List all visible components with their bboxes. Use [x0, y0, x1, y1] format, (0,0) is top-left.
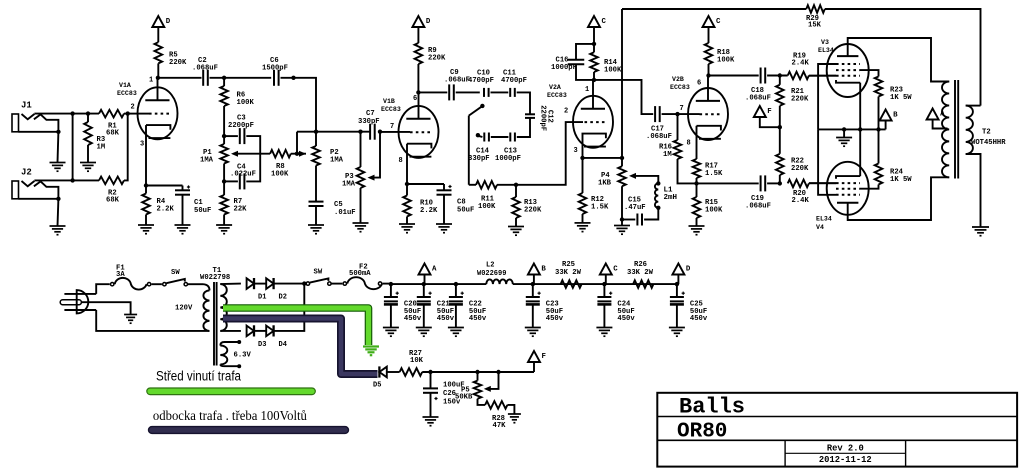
switch contact upper: [479, 136, 483, 137]
svg-text:D: D: [686, 266, 691, 274]
capacitor C21: [423, 284, 425, 297]
svg-text:100K: 100K: [705, 207, 723, 215]
diode D2: [266, 278, 273, 289]
wire J2 to R2: [34, 179, 99, 181]
wire P5 to R28: [478, 399, 486, 405]
power node F 2: [528, 351, 540, 362]
fuse F1: [111, 283, 114, 286]
svg-text:.068uF: .068uF: [745, 95, 771, 103]
svg-text:SW: SW: [314, 269, 323, 277]
wire F1 to SW: [152, 283, 162, 285]
svg-text:B: B: [541, 266, 546, 274]
wire R23 bottom: [878, 97, 880, 130]
svg-text:220K: 220K: [428, 55, 446, 63]
svg-text:1500pF: 1500pF: [262, 65, 288, 73]
resistor R12: [579, 193, 587, 214]
legend green bar: [147, 388, 315, 395]
wire C to R18: [708, 27, 710, 43]
capacitor C23: [532, 284, 534, 297]
wire secondary bottom to ground: [966, 154, 981, 227]
diode D5: [379, 367, 386, 378]
svg-text:4700pF: 4700pF: [468, 77, 494, 85]
potentiometer P1: [223, 136, 225, 144]
svg-text:68K: 68K: [106, 197, 120, 205]
wire R27 to F: [422, 371, 534, 373]
junction V2B plate: [706, 73, 710, 77]
svg-text:SW: SW: [171, 269, 180, 277]
svg-text:.068uF: .068uF: [444, 77, 470, 85]
junction R21 top: [778, 73, 782, 77]
svg-text:450v: 450v: [617, 315, 635, 323]
resistor R8: [270, 150, 291, 158]
svg-text:100K: 100K: [604, 67, 622, 75]
svg-text:3: 3: [574, 147, 578, 155]
svg-text:D: D: [426, 18, 431, 26]
ground R13: [508, 226, 524, 228]
svg-text:1: 1: [585, 86, 589, 94]
wire V3 cathode: [859, 83, 861, 130]
power node B: [880, 110, 892, 121]
capacitor C9: [448, 84, 450, 100]
P1 wiper arrow: [237, 153, 270, 155]
wire P4 bottom: [621, 186, 623, 219]
diode D3: [247, 326, 254, 337]
svg-text:F: F: [542, 353, 546, 361]
svg-text:V2A: V2A: [549, 84, 561, 91]
svg-text:220K: 220K: [169, 59, 187, 67]
resistor R19: [788, 72, 809, 80]
svg-text:D: D: [166, 18, 171, 26]
ground mains: [124, 314, 137, 316]
resistor R26: [633, 280, 653, 288]
wire to C16: [576, 44, 594, 60]
junction C23: [531, 282, 535, 286]
svg-text:Střed vinutí trafa: Střed vinutí trafa: [156, 369, 241, 384]
wire V4 g3: [818, 129, 836, 194]
resistor R29: [806, 5, 825, 13]
wire plug neutral: [96, 310, 209, 331]
junction R6 top: [222, 76, 226, 80]
svg-text:.47uF: .47uF: [624, 204, 646, 212]
resistor R16: [674, 140, 682, 159]
wire V2B cathode: [696, 126, 698, 159]
node V1A plate: [156, 76, 160, 80]
svg-text:W022798: W022798: [200, 274, 230, 282]
wire R24 top: [878, 129, 880, 163]
tube V1B ECC83: [381, 92, 439, 165]
wire V4 g1: [809, 182, 836, 184]
svg-text:1000pF: 1000pF: [551, 64, 577, 72]
svg-text:500mA: 500mA: [349, 270, 371, 278]
svg-text:ECC83: ECC83: [117, 90, 137, 97]
svg-text:Balls: Balls: [679, 395, 745, 420]
fuse F2: [343, 282, 346, 285]
svg-text:F: F: [767, 108, 771, 116]
capacitor C8: [443, 184, 445, 190]
svg-text:33K 2W: 33K 2W: [627, 269, 654, 277]
wire plate to C2: [158, 77, 202, 79]
capacitor C25: [676, 284, 678, 297]
mains plug: [60, 290, 96, 313]
resistor R1: [99, 110, 124, 118]
transformer T1 heater winding: [220, 346, 227, 365]
power node A: [419, 264, 431, 275]
wire V1A cathode: [145, 125, 147, 185]
wire R20 to V4 grid: [809, 182, 836, 184]
svg-text:V2B: V2B: [672, 76, 684, 83]
svg-text:D2: D2: [279, 294, 287, 302]
resistor R6: [223, 78, 225, 86]
resistor R20: [788, 180, 809, 188]
wire P2 to C5: [315, 166, 317, 202]
capacitor C2: [202, 70, 204, 86]
wire C11 to C12: [517, 92, 530, 114]
svg-text:C12: C12: [546, 110, 554, 123]
wire C16 bottom: [576, 64, 594, 80]
power node A tap: [927, 109, 939, 120]
wire R28 ground: [507, 405, 514, 414]
resistor R25: [561, 280, 582, 288]
junction cathode R10: [405, 182, 409, 186]
svg-text:A: A: [940, 111, 945, 119]
ground R28: [508, 413, 521, 415]
transformer T1 primary: [203, 284, 210, 290]
ground P3: [353, 222, 369, 224]
svg-text:1: 1: [149, 77, 153, 85]
junction C4 node: [222, 179, 226, 183]
ground J2: [50, 225, 66, 227]
ground C20: [383, 327, 399, 329]
capacitor C20: [390, 284, 392, 297]
svg-text:W022699: W022699: [477, 270, 506, 278]
junction C16 tee: [592, 42, 596, 46]
potentiometer P5: [474, 381, 482, 399]
junction C22: [454, 282, 458, 286]
svg-text:6: 6: [697, 80, 701, 88]
svg-text:100K: 100K: [237, 99, 255, 107]
capacitor C3: [224, 135, 238, 137]
capacitor C1: [182, 186, 184, 191]
svg-text:2200pF: 2200pF: [539, 105, 547, 131]
potentiometer P2: [312, 146, 320, 166]
tube V3 EL34: [818, 39, 869, 97]
svg-text:100K: 100K: [271, 171, 289, 179]
wire SW to T1: [188, 283, 204, 285]
capacitor C17: [654, 106, 656, 122]
power node F: [754, 106, 766, 117]
svg-text:C26: C26: [443, 390, 456, 398]
svg-text:D4: D4: [279, 341, 287, 349]
svg-text:C1: C1: [194, 199, 203, 207]
junction P3 top: [358, 130, 362, 134]
title block: [657, 393, 1017, 467]
ground C5: [308, 224, 324, 226]
wire HV top to D1: [220, 283, 241, 286]
resistor R23: [875, 77, 883, 97]
wire R15 ground: [696, 218, 698, 226]
ground C26: [423, 416, 439, 418]
ground R12: [575, 222, 591, 224]
tube V1A ECC83: [117, 77, 178, 149]
power node C: [588, 16, 600, 27]
wire R17 bottom: [696, 178, 698, 183]
junction P4 top: [620, 156, 624, 160]
switch pole wire: [468, 116, 470, 185]
junction PI lower: [694, 181, 698, 185]
wire V2A cathode: [582, 134, 584, 158]
svg-text:1MA: 1MA: [330, 157, 344, 165]
wire J1 to R1: [34, 113, 99, 115]
resistor R10: [406, 184, 408, 196]
wire R12 ground: [582, 214, 584, 223]
svg-text:ECC83: ECC83: [381, 106, 401, 113]
wire V3 g1: [809, 75, 836, 77]
svg-text:C: C: [716, 18, 721, 26]
potentiometer P4: [618, 166, 626, 186]
resistor R27: [400, 368, 423, 376]
capacitor C15: [622, 219, 635, 221]
resistor R28: [485, 401, 507, 409]
wire cathode to C8: [407, 183, 444, 185]
svg-text:450v: 450v: [546, 315, 564, 323]
capacitor C13: [509, 133, 511, 142]
svg-text:1M: 1M: [663, 151, 672, 159]
ground C8: [436, 223, 452, 225]
svg-text:22K: 22K: [234, 206, 248, 214]
tube V4 EL34: [816, 162, 869, 231]
svg-text:D5: D5: [373, 382, 381, 390]
capacitor C18: [760, 68, 762, 84]
ground R7: [216, 224, 232, 226]
legend navy bar: [149, 427, 349, 434]
svg-text:2012-11-12: 2012-11-12: [819, 455, 872, 465]
capacitor C7: [369, 124, 371, 140]
svg-text:330pF: 330pF: [468, 155, 490, 163]
svg-text:D3: D3: [258, 341, 266, 349]
wire P3 ground: [360, 188, 362, 223]
capacitor C16: [568, 59, 585, 61]
junction C21: [422, 282, 426, 286]
inductor L1 2mH: [655, 183, 658, 207]
wire R19 to V3 grid: [809, 75, 836, 77]
power node D 3: [672, 264, 684, 275]
svg-text:1MA: 1MA: [342, 181, 356, 189]
ground C21: [416, 327, 432, 329]
svg-text:7: 7: [390, 123, 394, 131]
svg-text:100K: 100K: [478, 203, 496, 211]
svg-text:15K: 15K: [808, 22, 822, 30]
wire heater bottom: [220, 365, 238, 367]
wire C10 C11: [491, 91, 509, 93]
svg-text:33K 2W: 33K 2W: [555, 269, 582, 277]
svg-text:2.4K: 2.4K: [792, 197, 810, 205]
svg-text:450v: 450v: [437, 315, 455, 323]
svg-text:50KB: 50KB: [455, 394, 473, 402]
wire signal bus: [297, 131, 370, 133]
svg-text:1MA: 1MA: [200, 157, 214, 165]
svg-text:.068uF: .068uF: [192, 65, 218, 73]
svg-text:450v: 450v: [469, 315, 487, 323]
wire D2 to node: [274, 283, 308, 285]
wire riser to signal: [296, 132, 298, 154]
svg-text:J2: J2: [21, 168, 32, 178]
resistor R11: [469, 184, 476, 186]
wire V3 plate: [848, 38, 950, 82]
ground C25: [669, 327, 685, 329]
wire jack link: [72, 114, 74, 181]
wire plate to C17: [594, 80, 653, 114]
wire R2 riser: [124, 114, 128, 181]
capacitor C19: [760, 175, 762, 191]
wire screen-cathode bus: [818, 128, 886, 130]
wire R18 to plate: [708, 64, 710, 76]
ground C24: [596, 327, 612, 329]
svg-text:8: 8: [399, 157, 403, 165]
wire C17 to grid: [662, 113, 700, 115]
wire C2 to C6: [210, 77, 272, 79]
wire C12 to C13: [517, 118, 530, 137]
wire R5 to plate node: [157, 63, 159, 77]
ground R10: [399, 223, 415, 225]
svg-text:2mH: 2mH: [664, 194, 678, 202]
resistor R17: [693, 159, 701, 178]
wire presence riser: [621, 9, 623, 158]
wire plug line: [96, 284, 110, 294]
svg-text:1M: 1M: [97, 144, 106, 152]
svg-text:EL34: EL34: [818, 47, 834, 54]
svg-text:V4: V4: [816, 224, 824, 231]
wire heater top: [220, 342, 238, 346]
capacitor C14: [483, 133, 485, 142]
transformer T2 core: [954, 80, 956, 179]
svg-text:2: 2: [564, 108, 568, 116]
svg-text:WOT45HHR: WOT45HHR: [971, 139, 1006, 147]
svg-text:68K: 68K: [106, 130, 120, 138]
transformer T2 secondary: [966, 106, 973, 154]
svg-text:3A: 3A: [116, 271, 125, 279]
svg-text:10K: 10K: [410, 357, 424, 365]
ground green tap: [363, 345, 379, 347]
power node C 2: [703, 16, 715, 27]
svg-text:450v: 450v: [690, 315, 708, 323]
svg-text:47K: 47K: [493, 422, 507, 430]
wire D3 D4: [254, 330, 266, 332]
svg-text:50uF: 50uF: [457, 207, 474, 215]
wire V1B cathode: [406, 144, 408, 184]
wire J1 ground: [57, 132, 60, 163]
resistor R5: [155, 42, 163, 63]
svg-text:EL34: EL34: [816, 216, 832, 223]
junction R3 top: [86, 111, 90, 115]
jack J1: [12, 101, 61, 135]
svg-text:1000pF: 1000pF: [495, 155, 521, 163]
wire R29 to secondary: [825, 9, 981, 106]
capacitor C24: [603, 284, 605, 297]
svg-text:C8: C8: [457, 199, 466, 207]
svg-text:2.2K: 2.2K: [157, 206, 175, 214]
junction C26: [428, 370, 432, 374]
wire R4 ground: [145, 215, 147, 226]
wire R1 to grid: [124, 113, 138, 115]
resistor R24: [875, 164, 883, 185]
svg-text:OR80: OR80: [677, 421, 727, 444]
wire plug earth: [81, 302, 130, 314]
svg-text:C: C: [613, 266, 618, 274]
capacitor C4: [239, 173, 241, 189]
svg-text:C5: C5: [334, 201, 343, 209]
wire cathode to P4: [583, 157, 623, 159]
resistor R7: [220, 195, 228, 215]
svg-text:A: A: [432, 266, 437, 274]
ground T2: [972, 226, 989, 228]
transformer T1 core: [213, 282, 215, 366]
jack J2: [12, 168, 61, 202]
svg-text:1KB: 1KB: [598, 180, 612, 188]
wire tap highlight navy: [223, 319, 378, 375]
svg-text:3: 3: [140, 141, 144, 149]
resistor R3: [87, 114, 89, 122]
wire V4 plate: [848, 177, 950, 220]
resistor R13: [515, 185, 517, 197]
wire V3 g3: [818, 64, 836, 129]
svg-text:T2: T2: [982, 129, 991, 137]
capacitor C22: [455, 284, 457, 297]
capacitor C12: [525, 113, 535, 115]
svg-text:C: C: [602, 18, 607, 26]
wire R6 to C3 node: [223, 106, 225, 136]
power node D 2: [412, 16, 424, 27]
svg-text:V3: V3: [821, 39, 829, 46]
ground C23: [525, 327, 541, 329]
ground output stage: [843, 129, 845, 137]
svg-text:R26: R26: [634, 261, 647, 269]
wire R21 bottom: [779, 106, 781, 127]
svg-text:.068uF: .068uF: [646, 133, 672, 141]
svg-text:2.4K: 2.4K: [792, 60, 810, 68]
junction V2A plate: [592, 78, 596, 82]
wire R10 ground: [406, 217, 408, 225]
svg-text:D1: D1: [258, 294, 266, 302]
wire D to R5: [157, 27, 159, 42]
resistor R2: [99, 177, 124, 185]
wire C6 to P2 top: [281, 78, 317, 146]
wire center-tap highlight green: [223, 308, 369, 345]
wire D4 to node: [274, 284, 305, 331]
wire HV bottom to D3: [220, 330, 241, 332]
power node D: [152, 16, 164, 27]
ground C1: [175, 224, 191, 226]
switch SW ht: [306, 282, 309, 285]
junction R13: [514, 183, 518, 187]
svg-text:450v: 450v: [404, 315, 422, 323]
capacitor C10: [483, 88, 485, 97]
junction P4 C15: [620, 217, 624, 221]
capacitor C11: [509, 88, 511, 97]
wire R22 bottom: [779, 175, 781, 183]
svg-text:4700pF: 4700pF: [501, 77, 527, 85]
svg-text:1.5K: 1.5K: [705, 170, 723, 178]
wire D to R9: [417, 27, 419, 43]
P4 wiper arrow: [634, 176, 658, 184]
ground R4: [138, 224, 154, 226]
wire R9 to plate: [417, 64, 419, 92]
transformer T1 secondary HV: [220, 284, 227, 331]
svg-text:.01uF: .01uF: [334, 209, 356, 217]
svg-text:J1: J1: [21, 101, 32, 111]
wire V3 g2 to R23: [860, 70, 879, 76]
resistor R9: [415, 43, 423, 64]
transformer T2 primary: [942, 82, 949, 178]
